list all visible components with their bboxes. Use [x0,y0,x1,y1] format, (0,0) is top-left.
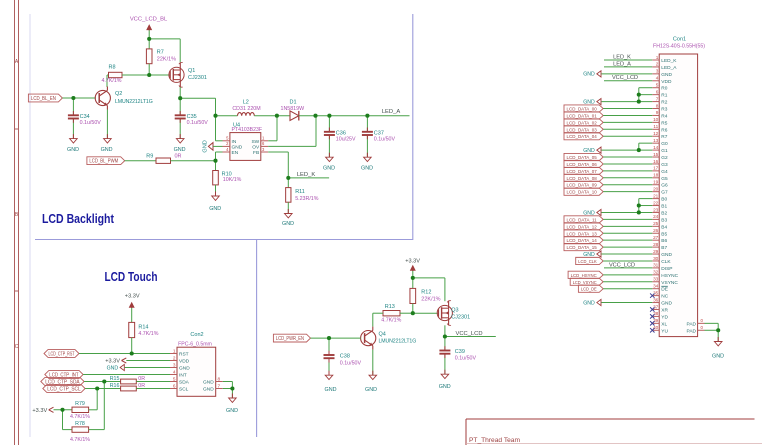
global label LCD_DATA_03 [564,126,603,134]
svg-text:G2: G2 [661,155,668,161]
wire SCL to R16 [85,388,121,390]
svg-text:GND: GND [661,252,672,258]
svg-text:GND: GND [712,354,724,360]
wire pin32 HSYNC [603,274,652,276]
wire R7 to gate node [148,64,150,75]
Con1 pin 17 G4 [652,166,668,175]
ground below Con2 [226,394,238,414]
svg-text:GND: GND [282,221,294,227]
wire OV up [268,116,316,147]
capacitor C37 [362,128,396,143]
sideways ground at pin14 [583,147,601,154]
svg-text:10K/1%: 10K/1% [223,177,242,183]
svg-text:22: 22 [653,200,659,205]
svg-text:10: 10 [653,117,659,122]
connector Con1 FH12S-40S-0.55H(55) box [653,36,705,336]
svg-text:CLK: CLK [661,259,671,265]
svg-text:17: 17 [653,166,659,171]
svg-text:31: 31 [653,263,659,268]
svg-text:R9: R9 [146,153,153,159]
wire C39 bottom [444,354,446,375]
global label LCD_DATA_00 [564,105,603,113]
wire pin23 B2 [601,211,652,213]
svg-text:C38: C38 [340,353,350,359]
sideways ground at pin29 [583,251,601,258]
svg-text:36: 36 [653,297,659,302]
global label LCD_HSYNC [568,271,603,279]
svg-text:PAD: PAD [686,328,696,334]
svg-text:0R: 0R [174,153,181,159]
inductor L2 [232,99,260,115]
net label VCC_LCD at pin4 [612,75,638,81]
svg-text:1N5819W: 1N5819W [281,106,305,112]
node out junction C37 [365,114,369,118]
svg-text:SCL: SCL [179,387,189,393]
Con1 pin 27 B6 [652,235,667,244]
svg-text:LCD_DE: LCD_DE [581,287,597,293]
global label LCD_CTP_SDA [41,378,84,386]
svg-text:GND: GND [67,147,79,153]
wire C37 top [366,116,368,132]
svg-text:B3: B3 [661,217,667,223]
wire pin12 [603,135,652,137]
svg-text:B7: B7 [661,245,667,251]
ground below PAD [712,337,724,360]
global label LCD_CTP_RST [44,350,79,358]
power +3.3V sideways at pullups [32,407,53,414]
wire pin6 R1 [639,94,653,96]
svg-text:GND: GND [101,147,113,153]
global label LCD_DATA_09 [564,181,603,189]
diode D1 [281,99,305,120]
svg-text:GND: GND [661,301,672,307]
svg-text:R79: R79 [75,401,85,407]
node Con2 gnd junction [230,386,234,390]
resistor R13 [381,304,401,323]
wire +3.3V to Q3 source [413,278,445,301]
wire pin5 R0 [639,88,653,102]
sideways ground at pin3 [583,71,601,78]
global label LCD_DATA_02 [564,119,603,127]
svg-text:21: 21 [653,193,659,198]
no-connect X pin38 [650,314,654,318]
svg-text:R15: R15 [110,376,120,382]
node B2 junction [637,210,641,214]
wire down to R12 [412,278,414,289]
sheet border left [15,0,19,445]
svg-text:XR: XR [661,307,668,313]
svg-text:XL: XL [661,321,667,327]
svg-text:GND: GND [174,147,186,153]
wire VCC down to R7 [148,39,150,49]
U4 pin OV stub [252,141,268,150]
node out junction C36 [327,114,331,118]
global label LCD_DATA_06 [564,160,603,168]
svg-text:NC: NC [661,294,668,300]
Con2 pin 8 GND [203,376,223,385]
svg-text:20: 20 [653,186,659,191]
svg-text:LMUN2212LT1G: LMUN2212LT1G [115,99,153,105]
Con2 pin 4 INT [170,369,187,378]
svg-text:Con1: Con1 [673,36,686,42]
wire C34 bottom [72,119,74,139]
wire Con2 gnd down [231,389,233,399]
wire pin16 [603,163,652,165]
svg-text:C39: C39 [455,349,465,355]
wire R16 to SCL pin [136,388,170,390]
global label LCD_DATA_04 [564,133,603,141]
wire C35 top [179,98,181,115]
svg-text:B2: B2 [661,210,667,216]
LCD Backlight section box [30,14,413,240]
svg-text:GND: GND [179,366,190,372]
global label LCD_DATA_11 [564,216,603,224]
svg-text:4.7K/1%: 4.7K/1% [138,331,158,337]
svg-text:4.7K/1%: 4.7K/1% [101,78,121,84]
svg-text:19: 19 [653,180,659,185]
Con1 pin 37 XR [652,304,668,313]
svg-text:FH12S-40S-0.55H(55): FH12S-40S-0.55H(55) [653,44,705,50]
wire INT row [83,374,170,376]
svg-text:B1: B1 [661,204,667,210]
ground below Q2 [101,134,113,153]
Con2 pin 5 SDA [170,376,190,385]
transistor Q3 [437,301,470,326]
ground below Q4 [365,371,377,393]
wire R13 right [400,312,413,314]
wire pin4 VDD [604,80,652,82]
Con1 pin 39 XL [652,318,667,327]
svg-text:R8: R8 [108,65,115,71]
svg-text:24: 24 [653,214,659,219]
Con1 pin 40 YU [652,325,668,334]
Con1 pin 18 G5 [652,173,668,182]
wire pin3 GND [601,73,652,75]
svg-text:5: 5 [173,376,176,381]
svg-text:GND: GND [203,387,214,393]
wire Q2 emitter to gnd [106,110,108,139]
node out junction 1 [313,114,317,118]
svg-text:9: 9 [656,110,659,115]
svg-text:4.7K/1%: 4.7K/1% [70,414,90,420]
Con1 pin 12 R7 [652,131,667,140]
svg-text:LED_K: LED_K [613,54,631,60]
svg-text:LCD_BL_EN: LCD_BL_EN [31,96,56,102]
sideways ground at Con2 GND [107,364,125,371]
svg-text:G3: G3 [661,162,668,168]
capacitor C35 [175,111,209,126]
wire gate node to Q3 gate [413,312,439,314]
wire PWM to R9 [125,160,156,162]
svg-text:VCC_LCD: VCC_LCD [612,75,638,81]
svg-text:VCC_LCD: VCC_LCD [455,331,482,337]
sideways ground at pin23 [583,209,601,216]
wire PAD gnd down [717,330,719,341]
Con1 pin 38 YD [652,311,668,320]
global label LCD_DATA_07 [564,167,603,175]
title block [466,419,762,445]
resistor R8 [101,65,122,84]
svg-text:13: 13 [653,138,659,143]
ground below R11 [282,209,294,227]
Con1 pin 15 G2 [652,152,668,161]
svg-text:32: 32 [653,270,659,275]
Con1 pin 1 LED_K [652,55,677,64]
svg-text:R2: R2 [661,100,667,106]
svg-text:23: 23 [653,207,659,212]
svg-text:D1: D1 [289,99,296,105]
wire pin34 DE [603,288,652,290]
svg-text:YD: YD [661,314,668,320]
wire RST row [79,353,170,355]
sideways ground at U4 GND pin [203,140,214,152]
Con1 pin 32 HSYNC [652,270,678,279]
svg-text:LCD_PWR_EN: LCD_PWR_EN [276,336,304,342]
resistor R11 [286,188,319,203]
node PAD junction [716,328,720,332]
svg-text:8: 8 [656,103,659,108]
Con1 pin 28 B7 [652,242,667,251]
node R1 junction [637,93,641,97]
no-connect X pin40 [650,328,654,332]
ground below C36 [323,153,335,172]
capacitor C39 [439,346,476,361]
svg-text:R6: R6 [661,127,667,133]
svg-text:10u/25V: 10u/25V [336,136,356,142]
svg-text:22K/1%: 22K/1% [421,297,440,303]
Con1 pin 20 G7 [652,186,668,195]
svg-text:R1: R1 [661,93,667,99]
wire FB down [268,152,288,178]
ground below C38 [325,371,337,393]
sideways ground at pin7 [583,98,601,105]
node SCL junction [95,386,99,390]
svg-text:G7: G7 [661,190,668,196]
svg-text:+3.3V: +3.3V [105,359,120,365]
no-connect X pin35 [650,293,654,297]
svg-text:VCC_LCD: VCC_LCD [609,262,635,268]
svg-text:G4: G4 [661,169,668,175]
wire pin13 G0 [639,143,653,150]
wire C35 bottom [179,119,181,139]
svg-text:LED_K: LED_K [661,58,677,64]
wire R11 to gnd [287,202,289,213]
svg-text:7: 7 [218,383,221,388]
svg-text:G1: G1 [661,148,668,154]
svg-text:R13: R13 [385,304,395,310]
svg-text:R0: R0 [661,86,667,92]
global label LCD_BL_EN [28,94,62,102]
svg-text:0.1u/50V: 0.1u/50V [80,120,102,126]
svg-text:LCD_DATA_15: LCD_DATA_15 [567,245,597,251]
wire pin33 VSYNC [603,281,652,283]
svg-text:GND: GND [323,165,335,171]
wire R15 to SDA pin [136,381,170,383]
svg-text:1: 1 [173,348,176,353]
power +3.3V sideways at VDD [105,358,126,365]
Con1 PAD pin right 2 [686,325,704,334]
wire R10 to gnd [215,185,217,196]
svg-text:CD31 220M: CD31 220M [232,106,260,112]
node PWR_EN-C38 junction [327,336,331,340]
svg-text:DISP: DISP [661,266,672,272]
svg-text:6: 6 [173,383,176,388]
resistor R12 [410,288,441,303]
svg-text:HSYNC: HSYNC [661,273,678,279]
svg-text:B4: B4 [661,224,667,230]
node VCC_LCD_BL junction [147,37,151,41]
global label LCD_CTP_SCL [43,385,85,393]
svg-text:LED_K: LED_K [297,172,316,178]
svg-text:8: 8 [218,376,221,381]
svg-text:11: 11 [653,124,658,129]
Con1 pin 35 NC [652,290,668,299]
global label LCD_DATA_05 [564,153,603,161]
wire pin36 GND [601,302,652,304]
wire VDD row [126,360,170,362]
wire pin25 [603,225,652,227]
power +3.3V above R14 [125,293,140,322]
wire pin30 CLK [603,260,652,262]
node VCC_LCD junction [443,334,447,338]
net label LED_K [297,172,316,178]
svg-text:15: 15 [653,152,659,157]
svg-text:R12: R12 [421,289,431,295]
wire pin17 [603,170,652,172]
wire pin1 LED_K [604,59,652,61]
Con1 pin 4 VDD [652,76,672,85]
wire pin10 [603,121,652,123]
Con2 pin 1 RST [170,348,189,357]
node pullup junction [60,408,64,412]
capacitor C34 [68,111,101,126]
wire VCC_LCD [445,336,496,338]
svg-text:26: 26 [653,228,659,233]
svg-text:GND: GND [365,387,377,393]
svg-text:LED_A: LED_A [661,65,677,71]
svg-text:GND: GND [226,408,238,414]
capacitor C38 [324,351,362,367]
svg-text:CJ2301: CJ2301 [188,75,207,81]
svg-text:34: 34 [653,283,659,288]
svg-text:29: 29 [653,249,659,254]
node RST junction [130,351,134,355]
svg-text:0.1u/50V: 0.1u/50V [374,136,396,142]
svg-text:5.23R/1%: 5.23R/1% [295,196,319,202]
svg-text:VDD: VDD [661,79,672,85]
svg-text:B5: B5 [661,231,667,237]
U4 pin SW stub [251,136,268,145]
Con2 pin 7 GND [203,383,223,392]
Con1 pin 24 B3 [652,214,667,223]
svg-text:2: 2 [173,355,176,360]
wire R12 to gate node [412,304,414,314]
node FB-LED_K junction [286,176,290,180]
wire C38 top [328,338,330,355]
svg-text:GND: GND [107,365,119,371]
Con1 pin 8 R3 [652,103,667,112]
svg-text:EN: EN [232,150,239,156]
svg-text:30: 30 [653,256,659,261]
net label LED_A at Con1 [613,61,631,67]
node EN-R10 junction [213,159,217,163]
svg-text:4: 4 [656,76,659,81]
Con2 pin 3 GND [170,362,190,371]
transistor Q1 [169,62,207,87]
svg-text:R78: R78 [75,421,85,427]
U4 pin FB stub [253,147,268,156]
LCD Touch section box [30,240,257,438]
wire pin9 [603,114,652,116]
svg-text:R7: R7 [661,134,667,140]
resistor R9 [146,153,181,163]
Con1 pin 26 B5 [652,228,667,237]
svg-text:LCD_BL_PWM: LCD_BL_PWM [89,159,118,165]
svg-text:C: C [15,344,19,350]
wire R13 left to Q4 collector [373,313,383,326]
wire pin11 [603,128,652,130]
svg-text:LCD_CLK: LCD_CLK [578,259,597,265]
net label VCC_LCD at pin31 [609,262,635,268]
wire +3.3V to R79 [54,409,73,411]
wire R8 left [107,75,109,87]
svg-text:GND: GND [439,384,451,390]
Con1 pin 11 R6 [652,124,667,133]
Con2 pin 2 VDD [170,355,190,364]
svg-text:GND: GND [583,300,595,306]
svg-text:VDD: VDD [179,359,190,365]
svg-text:4.7K/1%: 4.7K/1% [381,318,401,324]
transistor Q2 [95,87,152,110]
global label LCD_DATA_14 [564,237,603,245]
Con1 pin 30 CLK [652,256,671,265]
global label LCD_DATA_12 [564,223,603,231]
wire pin31 DISP [604,267,652,269]
svg-text:R7: R7 [157,49,164,55]
svg-text:28: 28 [653,242,659,247]
connector Con2 FPC-6_0.5mm [177,332,216,396]
wire R8 right [122,74,149,76]
svg-text:R11: R11 [295,189,305,195]
resistor R15 [110,376,146,384]
svg-text:GND: GND [203,140,209,152]
U4 pin GND stub [223,141,243,150]
global label LCD_DATA_01 [564,112,603,120]
wire SW up [268,116,277,141]
Con1 pin 36 GND [652,297,672,306]
U4 pin IN stub [223,136,237,145]
node R2 junction [637,100,641,104]
global label LCD_DATA_10 [564,188,603,196]
LCD Touch title [105,269,158,284]
Con1 pin 2 LED_A [652,62,677,71]
svg-text:GND: GND [583,72,595,78]
svg-text:Q3: Q3 [451,307,458,313]
transistor Q4 [361,327,417,350]
wire U4 GND pin [213,145,223,147]
svg-text:7: 7 [656,96,659,101]
global label LCD_CTP_INT [45,371,83,379]
wire R9 to EN node [171,160,216,162]
svg-text:LCD_DATA_04: LCD_DATA_04 [567,134,597,140]
wire C36 top [328,116,330,132]
global label LCD_DATA_13 [564,230,603,238]
svg-text:3: 3 [173,362,176,367]
U4 pin EN stub [223,147,239,156]
wire pin26 [603,232,652,234]
svg-text:+3.3V: +3.3V [405,258,420,264]
wire LCD_PWR_EN [311,337,362,339]
